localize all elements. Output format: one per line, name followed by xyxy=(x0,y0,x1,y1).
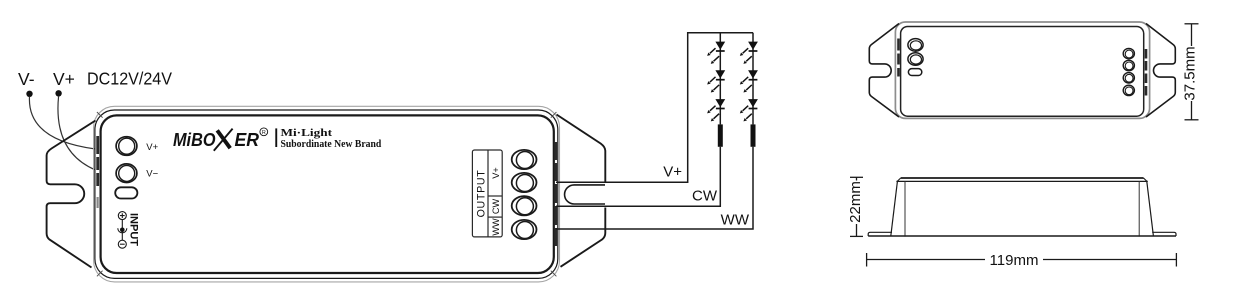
logo registered mark xyxy=(260,128,268,136)
side view shoulder xyxy=(896,180,1147,182)
svg-text:WW: WW xyxy=(721,212,750,229)
controller body middle outline xyxy=(95,110,558,278)
svg-text:119mm: 119mm xyxy=(990,252,1039,269)
side view lid xyxy=(901,177,1144,179)
top view left ear xyxy=(869,24,899,118)
wire V+ with riser and LED top bus xyxy=(556,33,753,183)
svg-text:V+: V+ xyxy=(663,164,682,181)
output terminal 2 xyxy=(512,173,537,192)
logo X stroke thick xyxy=(217,130,230,148)
logo divider bar xyxy=(275,128,277,147)
LED string 2 conductor xyxy=(752,33,754,125)
left mounting ear xyxy=(47,121,96,268)
LED D2 xyxy=(707,70,725,92)
dimension 37.5mm line xyxy=(1185,24,1199,120)
top view right ear xyxy=(1146,24,1175,118)
svg-text:CW: CW xyxy=(692,188,718,205)
right side wall terminal slots xyxy=(554,142,557,246)
svg-text:22mm: 22mm xyxy=(847,181,864,223)
button pill xyxy=(115,187,137,198)
left side wall terminal slots xyxy=(96,136,99,208)
top view terminal circle 1 xyxy=(908,39,923,52)
top view output circle 4 xyxy=(1123,85,1134,95)
svg-text:CW: CW xyxy=(491,199,501,215)
side view left seam xyxy=(904,181,906,236)
LED D5 xyxy=(740,70,758,92)
side view lid bevels xyxy=(897,178,1147,181)
OUTPUT label box xyxy=(472,150,502,237)
top view output circle 2 xyxy=(1123,60,1134,70)
input wire terminal dot V- xyxy=(26,91,32,97)
resistor R2 xyxy=(751,124,756,146)
svg-text:OUTPUT: OUTPUT xyxy=(475,170,487,218)
right ear slot xyxy=(565,185,605,204)
input wire from V- dot to controller xyxy=(29,97,95,150)
corner mitre seams xyxy=(97,112,557,276)
svg-text:R: R xyxy=(262,130,266,136)
svg-text:V+: V+ xyxy=(53,69,75,89)
svg-text:WW: WW xyxy=(491,218,501,236)
LED D1 xyxy=(707,42,725,64)
LED D4 xyxy=(740,42,758,64)
wire CW xyxy=(556,147,720,207)
svg-text:V-: V- xyxy=(18,69,35,89)
side view right seam xyxy=(1138,181,1140,236)
controller body outer outline xyxy=(94,106,560,282)
side view left flange xyxy=(868,232,892,236)
output terminal 3 xyxy=(512,196,537,215)
svg-text:Subordinate New Brand: Subordinate New Brand xyxy=(281,138,382,150)
top view output circle 1 xyxy=(1123,48,1134,58)
input wire terminal dot V+ xyxy=(55,90,61,96)
LED string 1 conductor xyxy=(719,33,721,125)
top view right wall slots xyxy=(1145,49,1148,96)
svg-text:ER: ER xyxy=(235,130,260,150)
top view body outer xyxy=(895,22,1149,118)
svg-text:MiBO: MiBO xyxy=(173,130,216,150)
output terminal 4 xyxy=(512,220,537,239)
resistor R1 xyxy=(718,124,723,146)
top view output circle 3 xyxy=(1123,73,1134,83)
top view button pill xyxy=(908,69,921,76)
right mounting ear xyxy=(557,115,606,267)
input wire from V+ dot to controller xyxy=(58,96,96,170)
dimension 22mm line xyxy=(850,177,863,236)
side view bottom xyxy=(868,235,1176,237)
svg-text:V+: V+ xyxy=(146,142,158,153)
input terminal V+ xyxy=(116,137,137,156)
side view right edge xyxy=(1147,181,1154,236)
svg-text:V−: V− xyxy=(146,169,158,180)
input terminal V- xyxy=(116,164,137,183)
output terminal 1 xyxy=(512,150,537,169)
side view left edge xyxy=(891,181,898,236)
LED D3 xyxy=(707,99,725,121)
LED D6 xyxy=(740,99,758,121)
svg-text:DC12V/24V: DC12V/24V xyxy=(87,69,172,89)
side view right flange xyxy=(1152,232,1176,236)
polarity symbol plus xyxy=(118,212,127,249)
wire WW xyxy=(556,147,753,229)
svg-text:INPUT: INPUT xyxy=(128,213,140,246)
controller top face outline xyxy=(101,115,554,273)
dimension 119mm line xyxy=(867,253,1177,267)
logo X stroke thin xyxy=(214,129,233,151)
polarity symbol center dot xyxy=(120,228,125,233)
top view left wall slots xyxy=(897,39,900,77)
svg-text:V+: V+ xyxy=(491,167,501,179)
svg-text:37.5mm: 37.5mm xyxy=(1182,46,1199,100)
top view terminal circle 2 xyxy=(908,53,923,66)
top view body inner xyxy=(901,27,1144,117)
